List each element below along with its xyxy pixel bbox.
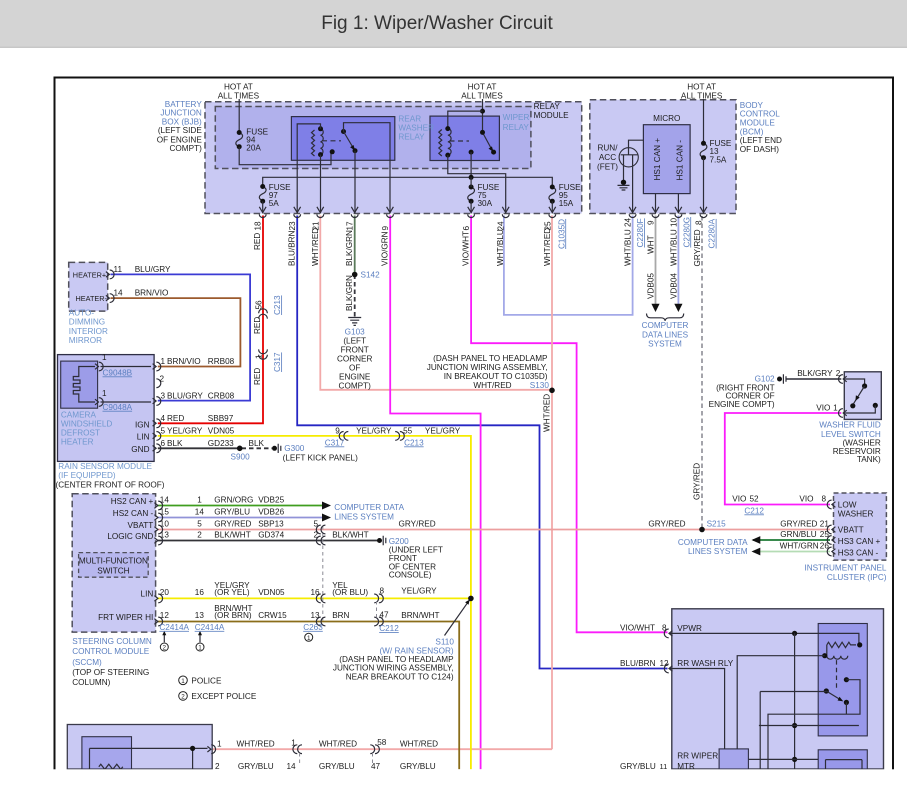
svg-text:9: 9 xyxy=(335,426,340,435)
camera internal wires xyxy=(101,367,152,403)
svg-text:CRW15: CRW15 xyxy=(258,611,287,620)
svg-text:5: 5 xyxy=(197,519,202,528)
svg-text:58: 58 xyxy=(377,738,387,747)
svg-text:17: 17 xyxy=(346,221,355,231)
front wiper motor module outer box xyxy=(67,725,212,770)
svg-text:GD374: GD374 xyxy=(258,530,284,539)
svg-text:RED: RED xyxy=(253,368,262,385)
svg-text:ALL TIMES: ALL TIMES xyxy=(461,92,503,101)
svg-text:16: 16 xyxy=(311,588,321,597)
RR washer relay coil wire to motor xyxy=(737,656,825,749)
ground G103 xyxy=(348,318,361,326)
C2414A circle 2 xyxy=(160,643,168,651)
svg-text:C9048A: C9048A xyxy=(103,403,133,412)
svg-text:CONSOLE): CONSOLE) xyxy=(389,570,432,579)
svg-text:SYSTEM: SYSTEM xyxy=(648,339,682,348)
svg-text:HOT AT: HOT AT xyxy=(468,83,497,92)
svg-text:RED: RED xyxy=(253,233,262,250)
svg-text:SBB97: SBB97 xyxy=(208,414,234,423)
svg-text:WINDSHIELD: WINDSHIELD xyxy=(61,420,112,429)
svg-text:GRY/RED: GRY/RED xyxy=(693,229,702,266)
body control module BCM box xyxy=(590,100,736,214)
svg-text:C213: C213 xyxy=(404,438,424,447)
svg-text:OF DASH): OF DASH) xyxy=(740,145,779,154)
svg-text:WHT/BLU: WHT/BLU xyxy=(496,229,505,266)
svg-text:RELAY: RELAY xyxy=(503,123,530,132)
svg-text:(LEFT KICK PANEL): (LEFT KICK PANEL) xyxy=(283,454,358,463)
svg-text:1: 1 xyxy=(181,678,185,685)
svg-text:COMPUTER: COMPUTER xyxy=(642,321,689,330)
C2414A circle 1 xyxy=(196,643,204,651)
svg-text:6: 6 xyxy=(462,226,471,231)
svg-text:2: 2 xyxy=(163,645,167,652)
mirror pin arcs xyxy=(106,270,114,303)
svg-text:BLK/WHT: BLK/WHT xyxy=(332,530,368,539)
relay K2 coil (wiper) xyxy=(439,130,442,156)
svg-text:14: 14 xyxy=(160,495,170,504)
svg-text:HS2 CAN -: HS2 CAN - xyxy=(113,509,154,518)
C212 short dashed link xyxy=(376,601,378,618)
wire hot feed wiper relay xyxy=(482,99,484,132)
connector C317 arcs yellow row xyxy=(339,432,348,441)
svg-text:(W/ RAIN SENSOR): (W/ RAIN SENSOR) xyxy=(379,646,453,655)
relay module outer box xyxy=(205,102,582,214)
svg-text:GRN/BLU: GRN/BLU xyxy=(780,530,816,539)
svg-text:1: 1 xyxy=(198,645,202,652)
svg-text:RAIN SENSOR MODULE: RAIN SENSOR MODULE xyxy=(58,462,152,471)
fuse 13 xyxy=(700,143,707,157)
svg-text:MODULE: MODULE xyxy=(534,111,570,120)
wire WHT/BLU pin24 to BCM pin24 xyxy=(504,216,633,315)
svg-text:3: 3 xyxy=(161,392,166,401)
RR relay dashed armature xyxy=(836,660,838,690)
node line fuse97-fuse75-fuse95 xyxy=(263,177,553,187)
RR relay switch xyxy=(824,688,829,693)
svg-text:(OR BLU): (OR BLU) xyxy=(332,588,368,597)
svg-text:RR WIPER: RR WIPER xyxy=(677,752,718,761)
svg-text:52: 52 xyxy=(750,494,760,503)
svg-text:(FET): (FET) xyxy=(597,162,618,171)
wire BRN/WHT CRW15 FRT WIPER HI xyxy=(158,622,459,770)
wire fuse75 to pin 6 xyxy=(470,177,472,213)
svg-text:BLU/GRY: BLU/GRY xyxy=(135,265,171,274)
svg-text:JUNCTION WIRING ASSEMBLY,: JUNCTION WIRING ASSEMBLY, xyxy=(427,363,548,372)
svg-text:WHT/RED: WHT/RED xyxy=(400,739,438,748)
svg-text:HEATER+: HEATER+ xyxy=(73,270,106,279)
BCM data arrow WHT/BLU xyxy=(674,304,682,312)
wire hot feed to fuse 94 xyxy=(238,99,240,133)
svg-text:(LEFT END: (LEFT END xyxy=(740,136,782,145)
svg-text:1: 1 xyxy=(102,353,107,362)
wire micro HS1 CAN - to pin 10 xyxy=(677,194,679,214)
svg-text:FRONT: FRONT xyxy=(341,345,369,354)
connector C212 arcs FRT row xyxy=(374,617,383,626)
svg-text:C9048B: C9048B xyxy=(103,368,133,377)
auto-dimming mirror box xyxy=(69,262,108,311)
svg-text:55: 55 xyxy=(403,426,413,435)
motor output line xyxy=(748,758,818,760)
front wiper motor resistor xyxy=(99,764,123,769)
wire fuse95 to pin 25 xyxy=(551,201,553,213)
svg-text:13: 13 xyxy=(311,611,321,620)
svg-text:13: 13 xyxy=(160,530,170,539)
svg-text:(TOP OF STEERING: (TOP OF STEERING xyxy=(72,668,149,677)
svg-text:C1035D: C1035D xyxy=(557,219,566,249)
svg-text:8: 8 xyxy=(662,624,667,633)
rear relay armature dashed link xyxy=(322,140,341,142)
svg-text:20A: 20A xyxy=(246,144,261,153)
svg-text:MICRO: MICRO xyxy=(653,114,680,123)
svg-text:BLU/BRN: BLU/BRN xyxy=(620,659,656,668)
svg-text:BRN/VIO: BRN/VIO xyxy=(167,357,201,366)
svg-text:C2414A: C2414A xyxy=(195,623,225,632)
svg-text:(OR YEL): (OR YEL) xyxy=(214,588,250,597)
svg-text:VIO/WHT: VIO/WHT xyxy=(462,231,471,266)
svg-text:LINES SYSTEM: LINES SYSTEM xyxy=(334,512,394,521)
svg-text:5A: 5A xyxy=(269,199,280,208)
svg-text:C2280A: C2280A xyxy=(708,218,717,248)
node junction dot xyxy=(469,175,474,180)
svg-text:20: 20 xyxy=(160,588,170,597)
svg-text:VIO/WHT: VIO/WHT xyxy=(620,624,655,633)
legend circle 2 xyxy=(179,692,188,701)
svg-text:4: 4 xyxy=(161,414,166,423)
svg-text:INSTRUMENT PANEL: INSTRUMENT PANEL xyxy=(804,563,886,572)
pin cups relay module and BCM bottom xyxy=(259,207,707,218)
svg-text:RED: RED xyxy=(167,414,184,423)
svg-text:5: 5 xyxy=(161,427,166,436)
svg-text:YEL/GRY: YEL/GRY xyxy=(167,427,203,436)
svg-text:8: 8 xyxy=(695,220,704,225)
wire hot to wiper coil top xyxy=(448,111,483,129)
wiper relay common terminal to node xyxy=(469,150,474,155)
svg-text:SWITCH: SWITCH xyxy=(97,567,129,576)
wire fuse97 to pin 18 xyxy=(262,201,264,213)
RR relay pivot feed xyxy=(760,692,826,770)
svg-text:GRY/RED: GRY/RED xyxy=(214,519,251,528)
svg-text:VDB26: VDB26 xyxy=(258,507,284,516)
svg-text:REAR: REAR xyxy=(398,115,421,124)
fuse 95 xyxy=(549,187,556,201)
svg-text:14: 14 xyxy=(114,289,124,298)
svg-text:COLUMN): COLUMN) xyxy=(72,678,110,687)
svg-text:56: 56 xyxy=(255,300,264,310)
RR relay upper contact hook xyxy=(844,677,849,682)
bottom row connector arcs C pair1 xyxy=(293,745,302,754)
svg-text:WHT/RED: WHT/RED xyxy=(311,228,320,266)
wire BLK/GRN pin17 to S142 xyxy=(354,216,356,275)
brace under BCM arrows xyxy=(647,314,684,321)
wire YEL LIN SCCM row to S110 xyxy=(158,597,471,599)
svg-text:RELAY: RELAY xyxy=(398,133,425,142)
rear wiper motor box xyxy=(719,749,748,769)
wire WHT VDB05 BCM pin9 xyxy=(655,216,657,306)
front wiper motor internal wire xyxy=(90,748,208,769)
rain sensor pin arcs xyxy=(153,362,161,453)
ground G300 xyxy=(272,446,277,451)
computer data arrow green xyxy=(322,502,331,510)
svg-text:BLK/GRN: BLK/GRN xyxy=(345,230,354,266)
rear washer relay inner dark box xyxy=(818,624,867,736)
svg-text:RUN/: RUN/ xyxy=(597,144,618,153)
svg-text:GRY/RED: GRY/RED xyxy=(648,520,685,529)
svg-text:YEL/GRY: YEL/GRY xyxy=(401,586,437,595)
wire hot feed to BCM fuse 13 xyxy=(703,99,705,143)
ground at FET xyxy=(621,180,626,185)
wire VIO/GRN pin9 down xyxy=(390,216,480,770)
svg-text:RR WASH RLY: RR WASH RLY xyxy=(677,659,733,668)
svg-text:10: 10 xyxy=(160,519,170,528)
svg-text:10: 10 xyxy=(669,217,678,227)
wire WHT/RED bottom row front wiper motor xyxy=(213,748,552,750)
svg-text:DIMMING: DIMMING xyxy=(69,318,105,327)
svg-text:VBATT: VBATT xyxy=(128,521,154,530)
washer fluid level switch box xyxy=(844,372,881,420)
svg-text:HS1 CAN -: HS1 CAN - xyxy=(676,140,685,181)
svg-text:(CENTER FRONT OF ROOF): (CENTER FRONT OF ROOF) xyxy=(56,481,165,490)
svg-text:15: 15 xyxy=(160,507,170,516)
svg-text:CRB08: CRB08 xyxy=(208,392,235,401)
wire fuse13 to pin 8 xyxy=(703,158,705,214)
svg-text:11: 11 xyxy=(114,265,123,274)
C263 arcs on rows xyxy=(316,525,325,626)
transistor Q1 RUN/ACC FET xyxy=(619,148,638,167)
svg-text:(LEFT SIDE: (LEFT SIDE xyxy=(158,126,203,135)
rear relay switch blade xyxy=(341,129,346,134)
steering column control module SCCM box xyxy=(72,494,155,632)
wire GRN/BLU HS3 CAN+ xyxy=(753,539,830,541)
svg-text:COMPT): COMPT) xyxy=(170,144,203,153)
svg-text:CAMERA: CAMERA xyxy=(61,410,97,419)
svg-text:WHT: WHT xyxy=(647,235,656,254)
svg-text:HEATER-: HEATER- xyxy=(76,294,108,303)
svg-text:G300: G300 xyxy=(284,444,304,453)
IPC data arrow WHT/GRN xyxy=(752,548,761,556)
svg-text:WHT/RED: WHT/RED xyxy=(319,739,357,748)
wire GRY/RED VBATT row through S215 to IPC xyxy=(158,529,830,531)
washer switch internals xyxy=(843,379,864,384)
svg-text:MODULE: MODULE xyxy=(740,119,776,128)
IPC data arrow GRN/BLU xyxy=(752,536,761,544)
svg-text:WASHER FLUID: WASHER FLUID xyxy=(819,421,881,430)
BCM data arrow WHT xyxy=(651,304,659,312)
svg-text:VDN05: VDN05 xyxy=(208,427,235,436)
svg-text:WHT/BLU: WHT/BLU xyxy=(669,229,678,266)
svg-text:VDB25: VDB25 xyxy=(258,495,284,504)
wire RED SBB97 fuse97 to rain sensor IGN xyxy=(158,216,263,424)
camera pin arcs xyxy=(95,362,103,406)
svg-text:C213: C213 xyxy=(273,295,282,315)
svg-text:S900: S900 xyxy=(231,453,251,462)
svg-text:LIN: LIN xyxy=(137,432,150,441)
svg-text:(IF EQUIPPED): (IF EQUIPPED) xyxy=(58,471,116,480)
wire VIO/WHT pin6 to VPWR xyxy=(471,216,667,633)
VPWR branch vertical xyxy=(794,633,796,769)
svg-text:BLK/WHT: BLK/WHT xyxy=(214,530,250,539)
svg-text:BLK/GRY: BLK/GRY xyxy=(797,369,833,378)
fuse 75 xyxy=(468,187,475,201)
node S900 xyxy=(237,446,243,452)
svg-text:12: 12 xyxy=(160,611,170,620)
wire WHT/RED pin21 to S130 xyxy=(320,216,552,390)
svg-text:2: 2 xyxy=(314,530,319,539)
wiper relay box xyxy=(430,116,499,160)
front wiper motor inner box xyxy=(82,737,132,769)
svg-text:1: 1 xyxy=(102,389,107,398)
wiper relay switch blade xyxy=(483,132,492,149)
svg-text:S110: S110 xyxy=(435,638,454,647)
svg-text:COMPUTER DATA: COMPUTER DATA xyxy=(678,538,748,547)
svg-text:DEFROST: DEFROST xyxy=(61,429,100,438)
washer switch pin arcs xyxy=(839,375,847,418)
title bar xyxy=(0,0,907,48)
svg-text:5: 5 xyxy=(314,519,319,528)
node S215 xyxy=(699,527,705,533)
svg-text:2: 2 xyxy=(836,369,841,378)
white strip clipping diagram bottom xyxy=(0,769,907,794)
svg-text:24: 24 xyxy=(624,217,633,227)
relay K1 coil (rear washer) xyxy=(312,130,315,156)
RR module VPWR internal line xyxy=(669,633,859,645)
FET drain wire to pin 24 xyxy=(632,167,634,213)
wire micro HS1 CAN + to pin 9 xyxy=(655,194,657,214)
wire YEL/GRY LIN rain pin5 to S110 down xyxy=(158,436,471,769)
svg-text:COMPUTER DATA: COMPUTER DATA xyxy=(334,503,404,512)
computer data arrow slate xyxy=(322,514,331,522)
connector C212 arcs LIN row xyxy=(374,594,383,603)
svg-text:8: 8 xyxy=(380,586,385,595)
rear wiper washer module box xyxy=(672,609,884,769)
svg-text:ALL TIMES: ALL TIMES xyxy=(681,92,723,101)
svg-text:LOGIC GND: LOGIC GND xyxy=(107,532,153,541)
FET source wire to ground xyxy=(623,166,625,181)
svg-text:RED: RED xyxy=(253,317,262,334)
svg-text:TANK): TANK) xyxy=(857,455,881,464)
node S110 xyxy=(468,596,474,602)
svg-text:GRY/RED: GRY/RED xyxy=(399,520,436,529)
svg-text:(OR BRN): (OR BRN) xyxy=(214,611,252,620)
svg-text:Fig 1: Wiper/Washer Circuit: Fig 1: Wiper/Washer Circuit xyxy=(321,13,553,34)
svg-text:BLU/BRN: BLU/BRN xyxy=(288,230,297,266)
svg-text:WHT/RED: WHT/RED xyxy=(543,228,552,266)
instrument panel cluster IPC box xyxy=(834,493,887,560)
wire VIO washer switch pin1 to IPC LOW WASHER xyxy=(725,413,842,505)
svg-text:WHT/RED: WHT/RED xyxy=(473,381,511,390)
svg-text:C212: C212 xyxy=(379,624,399,633)
connector C213 arcs yellow row xyxy=(395,432,404,441)
multi-function switch box xyxy=(79,553,149,578)
svg-text:C2414A: C2414A xyxy=(159,623,189,632)
svg-text:MULTI-FUNCTION: MULTI-FUNCTION xyxy=(79,556,148,565)
svg-text:S215: S215 xyxy=(707,520,727,529)
ground G200 xyxy=(377,538,382,543)
svg-text:LINES SYSTEM: LINES SYSTEM xyxy=(688,547,748,556)
svg-text:YEL/GRY: YEL/GRY xyxy=(425,426,461,435)
svg-text:IN BREAKOUT TO C1035D): IN BREAKOUT TO C1035D) xyxy=(444,372,548,381)
wire rear relay coil top to pin 23 xyxy=(297,124,320,213)
svg-text:WHT/RED: WHT/RED xyxy=(543,394,552,432)
wire rear relay coil bottom to pin 21 xyxy=(320,155,322,214)
svg-text:YEL/GRY: YEL/GRY xyxy=(356,426,392,435)
svg-text:VDB04: VDB04 xyxy=(669,273,678,299)
svg-text:GD233: GD233 xyxy=(208,439,234,448)
svg-text:C2280F: C2280F xyxy=(636,218,645,247)
rear relay common terminal xyxy=(330,149,335,154)
svg-text:JUNCTION: JUNCTION xyxy=(160,108,201,117)
connector C263 dashed line xyxy=(322,526,324,623)
svg-text:BLK: BLK xyxy=(167,439,183,448)
wire WHT/GRN HS3 CAN- xyxy=(753,551,830,553)
node S130 xyxy=(549,388,555,394)
IPC pin arcs xyxy=(827,500,835,556)
svg-text:26: 26 xyxy=(820,542,830,551)
svg-text:ENGINE COMPT): ENGINE COMPT) xyxy=(709,400,775,409)
battery junction box BJB inner box xyxy=(215,107,531,169)
svg-text:NEAR BREAKOUT TO C124): NEAR BREAKOUT TO C124) xyxy=(346,672,454,681)
svg-text:47: 47 xyxy=(380,611,390,620)
svg-text:ALL TIMES: ALL TIMES xyxy=(218,92,260,101)
C263 circle 1 xyxy=(305,633,313,641)
svg-text:BRN/WHT: BRN/WHT xyxy=(401,611,439,620)
RR wiper relay partial internals xyxy=(826,760,863,770)
wire BLK/GRN dashed S142 to G103 xyxy=(354,275,356,317)
wire WHT/RED C1035D pin25 through S130 to bottom xyxy=(551,216,553,750)
wire fuse94 to rear washer relay common xyxy=(239,147,331,165)
svg-text:HS3 CAN +: HS3 CAN + xyxy=(838,537,881,546)
svg-text:14: 14 xyxy=(195,507,205,516)
rain sensor module box xyxy=(58,355,155,462)
RR wash rly wire to motor xyxy=(669,669,725,749)
svg-text:24: 24 xyxy=(497,221,506,231)
svg-text:BLU/GRY: BLU/GRY xyxy=(167,392,203,401)
svg-text:21: 21 xyxy=(820,520,830,529)
bottom row dashes xyxy=(300,753,373,766)
svg-text:VPWR: VPWR xyxy=(677,624,702,633)
crossbar y725 xyxy=(759,725,859,727)
svg-text:VIO: VIO xyxy=(816,403,830,412)
svg-text:12: 12 xyxy=(660,659,670,668)
svg-text:15A: 15A xyxy=(559,199,574,208)
svg-text:FRT WIPER HI: FRT WIPER HI xyxy=(98,613,153,622)
svg-text:WHT/RED: WHT/RED xyxy=(237,739,275,748)
svg-text:BRN: BRN xyxy=(332,611,349,620)
legend circle 1 xyxy=(179,676,188,685)
svg-text:1: 1 xyxy=(161,357,166,366)
svg-text:HOT AT: HOT AT xyxy=(224,83,253,92)
svg-text:18: 18 xyxy=(254,221,263,231)
C2414A up arrows xyxy=(164,634,200,643)
svg-text:23: 23 xyxy=(288,221,297,231)
svg-text:HOT AT: HOT AT xyxy=(687,83,716,92)
svg-text:OF: OF xyxy=(349,364,360,373)
svg-text:VIO: VIO xyxy=(732,494,746,503)
junction hot-coil xyxy=(480,109,485,114)
svg-text:30A: 30A xyxy=(478,199,493,208)
svg-text:BLK/GRN: BLK/GRN xyxy=(345,275,354,311)
svg-text:(DASH PANEL TO HEADLAMP: (DASH PANEL TO HEADLAMP xyxy=(433,354,548,363)
rear washer relay box xyxy=(291,117,394,161)
connector C213 break on red wire xyxy=(259,309,268,319)
svg-text:POLICE: POLICE xyxy=(191,676,222,685)
svg-text:16: 16 xyxy=(195,588,205,597)
svg-text:S130: S130 xyxy=(530,381,550,390)
svg-text:WHT/GRN: WHT/GRN xyxy=(780,542,819,551)
S110 pointer arrow xyxy=(445,603,468,636)
wire rear relay contact to pin 17 xyxy=(354,151,356,214)
front wiper module pin arc xyxy=(207,745,215,754)
svg-text:G103: G103 xyxy=(345,327,365,336)
svg-text:HEATER: HEATER xyxy=(61,438,94,447)
